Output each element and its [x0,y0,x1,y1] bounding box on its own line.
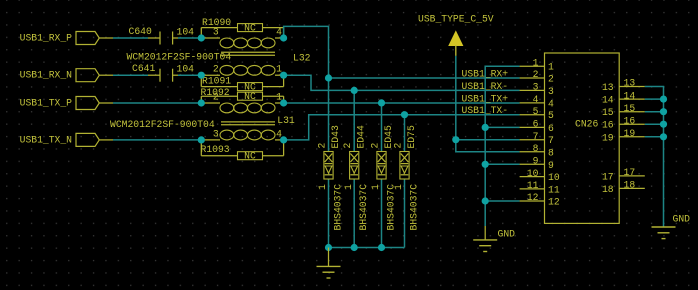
svg-text:USB1_RX_N: USB1_RX_N [20,70,73,81]
svg-text:USB1_TX_N: USB1_TX_N [20,134,73,145]
svg-text:13: 13 [602,82,614,93]
svg-text:13: 13 [624,78,636,89]
svg-text:6: 6 [548,123,554,134]
pin 8 [520,143,554,158]
svg-text:4: 4 [533,94,539,105]
svg-text:19: 19 [624,128,636,139]
wire TX_N to L31.3 [113,139,201,141]
svg-text:GND: GND [673,214,691,225]
ESD diode ED43 (BHS4037C) [317,78,344,248]
wire net USB1_TX+ [284,102,520,104]
svg-text:7: 7 [548,135,554,146]
svg-text:NC: NC [244,23,256,34]
wire net USB1_RX- [284,75,520,90]
pin 19 [602,128,645,143]
junction ED45 top [378,99,385,106]
svg-text:7: 7 [533,131,539,142]
junction L3x left row 4 [198,136,205,143]
junction L3x left row 3 [198,99,205,106]
wire C640 to L32.3 [178,37,201,39]
junction bus ED43 [325,244,332,251]
svg-text:10: 10 [527,168,539,179]
svg-text:3: 3 [533,82,539,93]
svg-text:L31: L31 [277,115,295,126]
svg-text:ED43: ED43 [330,125,341,148]
junction ED44 top [351,87,358,94]
svg-text:1: 1 [370,184,381,190]
ground [317,248,341,279]
wire C641 to L32.2 [178,74,201,76]
svg-text:1: 1 [393,184,404,190]
svg-text:2: 2 [370,143,381,149]
pin 9 [520,156,554,171]
svg-text:1: 1 [343,184,354,190]
wire ESD ground bus [329,247,405,249]
svg-text:16: 16 [624,115,636,126]
wire RX_N to C641 [113,74,148,76]
svg-text:USB1_RX_P: USB1_RX_P [20,32,73,43]
svg-text:2: 2 [342,143,353,149]
junction pin14 [660,96,667,103]
junction L3x right row 1 [280,34,287,41]
wire pin13 to ground [645,87,664,228]
junction pin19 [660,133,667,140]
resistor R1091 (NC) [201,75,283,92]
pin 6 [520,119,554,134]
pin 1 [520,57,554,72]
junction pin16 [660,121,667,128]
svg-text:17: 17 [602,171,614,182]
svg-text:BHS4037C: BHS4037C [409,184,420,231]
port USB1_RX_P [20,32,113,45]
connector CN26 [520,53,645,223]
svg-text:L32: L32 [293,53,311,64]
junction L3x left row 2 [198,72,205,79]
power USB_TYPE_C_5V [418,14,494,56]
svg-text:10: 10 [548,172,560,183]
svg-text:14: 14 [602,95,614,106]
svg-text:17: 17 [624,167,636,178]
junction pin9 [482,161,489,168]
svg-text:1: 1 [317,184,328,190]
svg-text:15: 15 [624,103,636,114]
resistor R1092 (NC) [201,87,284,103]
wire net USB1_RX+ [284,26,520,78]
pin 18 [602,180,645,195]
junction pin6 [482,124,489,131]
wire pin14 [645,98,664,100]
junction power pin7 [452,136,459,143]
svg-text:NC: NC [244,91,256,102]
wire TX_P to L31.2 [113,102,201,104]
junction L3x right row 2 [280,72,287,79]
svg-text:5: 5 [533,106,539,117]
svg-text:104: 104 [177,64,195,75]
junction ED43 top [325,74,332,81]
resistor R1093 (NC) [201,140,284,162]
svg-text:18: 18 [624,180,636,191]
wire pin6 [485,126,519,128]
svg-text:9: 9 [548,160,554,171]
junction L3x right row 3 [280,99,287,106]
capacitor C640 [129,26,195,45]
wire pin16 [645,123,664,125]
svg-text:C641: C641 [132,63,155,74]
resistor R1090 (NC) [201,17,283,38]
port USB1_TX_P [20,97,113,110]
port USB1_TX_N [20,133,113,146]
ESD diode ED45 (BHS4037C) [370,103,397,248]
junction pin15 [660,108,667,115]
common-mode choke L31 (WCM2012F2SF-900T04) [110,92,295,140]
junction L3x right row 4 [280,136,287,143]
svg-text:2: 2 [393,143,404,149]
svg-text:2: 2 [548,74,554,85]
pin 4 [520,94,554,109]
pin 13 [602,78,645,93]
svg-text:2: 2 [533,69,539,80]
junction bus ED44 [351,244,358,251]
svg-text:ED75: ED75 [406,125,417,148]
pin 12 [520,192,560,207]
svg-text:3: 3 [548,86,554,97]
junction L3x left row 1 [198,34,205,41]
svg-text:2: 2 [213,64,219,75]
pin 14 [602,90,645,105]
ESD diode ED44 (BHS4037C) [342,90,369,247]
svg-text:ED44: ED44 [356,125,367,148]
wire power to pins 7,8 [456,56,520,152]
junction ED75 top [401,111,408,118]
svg-text:BHS4037C: BHS4037C [358,184,369,231]
wire pin12 [485,200,519,202]
svg-text:12: 12 [527,192,539,203]
svg-text:16: 16 [602,120,614,131]
svg-text:6: 6 [533,119,539,130]
svg-text:2: 2 [317,143,328,149]
pin 11 [520,180,560,195]
svg-text:R1090: R1090 [202,17,231,28]
pin 7 [520,131,554,146]
pin 17 [602,167,645,182]
ground [473,226,515,252]
ground [652,214,691,239]
capacitor C641 [132,63,194,82]
wire pin9 [485,163,519,165]
svg-text:R1093: R1093 [201,144,230,155]
svg-text:WCM2012F2SF-900T04: WCM2012F2SF-900T04 [110,119,215,130]
svg-text:18: 18 [602,184,614,195]
pin 5 [520,106,554,121]
svg-text:15: 15 [602,107,614,118]
svg-text:5: 5 [548,110,554,121]
pin 2 [520,69,554,84]
junction pin12 [482,197,489,204]
svg-text:14: 14 [624,90,636,101]
pin 16 [602,115,645,130]
svg-text:4: 4 [548,98,554,109]
svg-text:USB1_TX_P: USB1_TX_P [20,97,73,108]
svg-text:1: 1 [548,62,554,73]
pin 10 [520,168,560,183]
svg-text:1: 1 [533,57,539,68]
svg-text:104: 104 [177,27,195,38]
svg-text:NC: NC [244,151,256,162]
port USB1_RX_N [20,69,113,82]
svg-text:8: 8 [548,147,554,158]
svg-text:R1091: R1091 [202,76,231,87]
wire RX_P to C640 [113,37,148,39]
svg-text:12: 12 [548,197,560,208]
common-mode choke L32 (WCM2012F2SF-900T04) [127,27,311,76]
ESD diode ED75 (BHS4037C) [393,115,420,248]
svg-text:USB_TYPE_C_5V: USB_TYPE_C_5V [418,14,494,25]
svg-text:11: 11 [527,180,539,191]
junction bus ED45 [378,244,385,251]
svg-text:CN26: CN26 [575,119,598,130]
wire pin15 [645,111,664,113]
svg-text:3: 3 [213,128,219,139]
pin 15 [602,103,645,118]
svg-text:3: 3 [213,27,219,38]
svg-text:8: 8 [533,143,539,154]
wire net USB1_TX- [284,115,520,140]
svg-text:WCM2012F2SF-900T04: WCM2012F2SF-900T04 [127,52,232,63]
wire pin19 [645,136,664,138]
svg-text:9: 9 [533,156,539,167]
pin 3 [520,82,554,97]
svg-text:GND: GND [498,229,516,240]
svg-text:19: 19 [602,132,614,143]
svg-text:11: 11 [548,184,560,195]
wire pin1 ground chain [485,66,519,226]
svg-text:C640: C640 [129,26,152,37]
wire pin7 [456,139,520,141]
